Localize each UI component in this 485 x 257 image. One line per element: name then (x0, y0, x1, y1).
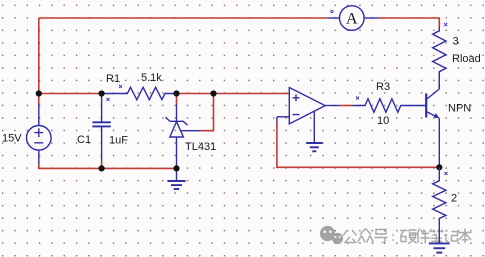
svg-text:NPN: NPN (448, 103, 471, 115)
wire: emitter vertical blue (438, 118, 440, 167)
shunt regulator U2 TL431 (165, 104, 200, 168)
wire: middle rail red right of R1 (176, 93, 290, 95)
pin marker (107, 98, 110, 101)
pin marker (331, 10, 333, 12)
svg-text:R3: R3 (376, 81, 390, 93)
pin marker (444, 23, 447, 26)
ground below op-amp (306, 143, 322, 151)
pin marker (356, 97, 359, 100)
wire: feedback red path to emitter node (277, 122, 439, 168)
wire: left vertical rail red (38, 18, 40, 94)
wire: source bottom red corner (39, 164, 177, 168)
pin marker (119, 85, 122, 88)
watermark logo (320, 226, 343, 244)
svg-text:TL431: TL431 (185, 141, 216, 153)
junction node emitter/sense (436, 164, 442, 170)
resistor R1 (102, 87, 176, 99)
svg-text:1uF: 1uF (109, 135, 128, 147)
svg-text:5.1k: 5.1k (141, 72, 162, 84)
junction node on mid rail at left vertical (36, 90, 42, 96)
wire: middle rail red left of R1 (39, 93, 102, 95)
resistor R3 (353, 99, 427, 113)
svg-text:A: A (346, 11, 358, 28)
capacitor C1 (92, 95, 110, 161)
transistor Q1 NPN (426, 89, 439, 118)
junction node TL431 reference (210, 90, 216, 96)
wire: source top red stub (38, 94, 40, 105)
junction node TL431 anode (173, 165, 179, 171)
resistor R2 (433, 167, 446, 243)
wire: op-amp output lead blue (325, 105, 339, 107)
svg-text:3: 3 (453, 36, 459, 48)
wire: top rail right red segment (378, 18, 439, 27)
ground below R2 (429, 243, 450, 252)
watermark text 公众号：硬件笔记本 (343, 229, 472, 244)
ammeter A1 (328, 6, 378, 31)
junction node C1 bottom (99, 165, 105, 171)
junction node TL431 cathode (173, 90, 179, 96)
svg-text:Rload: Rload (452, 53, 481, 65)
voltage source V1 (27, 104, 52, 164)
wire: top rail left red segment (39, 17, 328, 19)
wire: C1 bottom red stub (101, 161, 103, 168)
svg-text:R1: R1 (106, 73, 120, 85)
pin marker (445, 172, 448, 175)
svg-text:C1: C1 (77, 134, 91, 146)
junction node C1 top (99, 90, 105, 96)
resistor Rload (433, 27, 446, 89)
wire: TL431 cathode red stub (176, 94, 178, 105)
op-amp U1 (277, 88, 325, 143)
wire: op-amp output red segment (339, 105, 353, 107)
ground below TL431 (167, 168, 185, 189)
wire: TL431 reference red wire (201, 94, 214, 131)
wire: feedback blue corner (276, 117, 278, 122)
svg-text:2: 2 (451, 193, 457, 205)
svg-text:15V: 15V (2, 133, 22, 145)
svg-text:10: 10 (377, 115, 389, 127)
wire: collector vertical blue (438, 72, 440, 89)
